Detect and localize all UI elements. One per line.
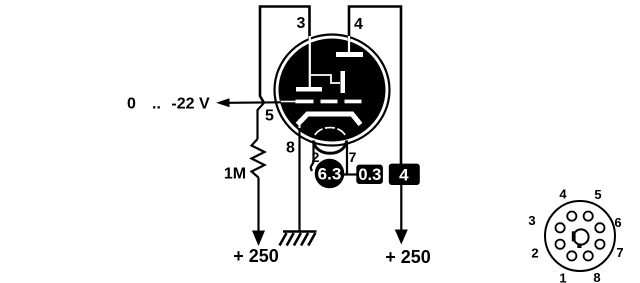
wire: top-left rail from grid junction up and over to pin 3	[260, 7, 310, 103]
arrowhead pointing down (+250 left)	[252, 231, 265, 247]
heater top arc (white on disc)	[315, 128, 345, 135]
svg-text:8: 8	[593, 270, 600, 283]
svg-text:7: 7	[349, 149, 357, 165]
heater bottom arc	[314, 141, 347, 154]
heater current box 0.3	[356, 165, 383, 184]
svg-text:3: 3	[297, 15, 306, 32]
link from pin3 lead to ray-control electrode	[310, 75, 340, 83]
spigot key bar	[572, 231, 576, 241]
socket center spigot	[573, 229, 588, 244]
svg-text:5: 5	[594, 187, 601, 202]
cathode band	[298, 114, 361, 125]
socket pin 2 hole	[556, 240, 565, 249]
svg-text:4: 4	[559, 187, 567, 202]
socket pin 4 hole	[567, 212, 576, 221]
grid dash 2	[321, 100, 338, 104]
tube U1 envelope (outer circle)	[275, 35, 390, 146]
pin 4 lead inside tube	[348, 36, 350, 54]
socket pin 5 hole	[584, 212, 593, 221]
svg-text:+ 250: + 250	[385, 247, 431, 267]
socket pin 7 hole	[595, 240, 604, 249]
wire: pin 7 down	[346, 141, 348, 175]
wire: heater bubble to 0.3 box	[344, 173, 357, 175]
anode (target) bar	[336, 52, 363, 57]
socket pin 6 hole	[595, 223, 604, 232]
svg-text:0.3: 0.3	[358, 166, 381, 184]
spigot key notch	[577, 244, 581, 248]
arrowhead pointing down (+250 right)	[395, 230, 408, 245]
grid dash 1	[296, 100, 314, 104]
wire: pin 2 to heater supply	[311, 141, 314, 171]
wire: resistor to +250 arrow	[257, 178, 259, 233]
ground	[283, 230, 317, 233]
pin 3 lead inside tube	[309, 36, 311, 87]
svg-text:6.3: 6.3	[318, 165, 342, 184]
svg-text:-22 V: -22 V	[171, 96, 210, 113]
ray-control electrode vertical bar	[341, 71, 346, 93]
socket pin 8 hole	[584, 251, 593, 260]
grid lead inside tube (pin 5)	[279, 101, 296, 103]
svg-text:+ 250: + 250	[233, 246, 279, 266]
svg-text:7: 7	[616, 245, 623, 260]
svg-text:1: 1	[559, 271, 566, 283]
wire: right rail below box to +250 arrow	[400, 185, 402, 231]
socket pin 3 hole	[556, 223, 565, 232]
svg-text:3: 3	[528, 213, 535, 228]
pin 8 cathode stub inside tube	[299, 119, 301, 131]
svg-text:4: 4	[399, 166, 409, 185]
socket base outline	[545, 201, 615, 271]
anode current box 4	[389, 164, 420, 185]
wire: grid line to -22V arrow	[228, 101, 281, 104]
grid dash 3	[345, 100, 362, 104]
socket pin 1 hole	[567, 251, 576, 260]
wire: pin 8 to ground	[298, 128, 300, 232]
arrowhead pointing left	[216, 98, 230, 107]
heater voltage bubble 6.3	[315, 159, 345, 189]
svg-text:2: 2	[531, 246, 538, 261]
svg-text:8: 8	[286, 140, 295, 157]
svg-text:..: ..	[152, 96, 161, 113]
svg-text:6: 6	[614, 215, 621, 230]
triode anode bar	[296, 87, 322, 92]
wire: junction to resistor R1	[258, 103, 265, 139]
tube U1 interior black disc	[279, 39, 386, 142]
svg-text:1M: 1M	[224, 166, 246, 183]
svg-text:5: 5	[265, 108, 274, 125]
svg-text:0: 0	[127, 96, 136, 113]
svg-text:4: 4	[354, 16, 363, 33]
wire: top-right rail from pin 4 up and over, down right side	[349, 7, 401, 166]
resistor 1M zigzag	[252, 139, 265, 178]
